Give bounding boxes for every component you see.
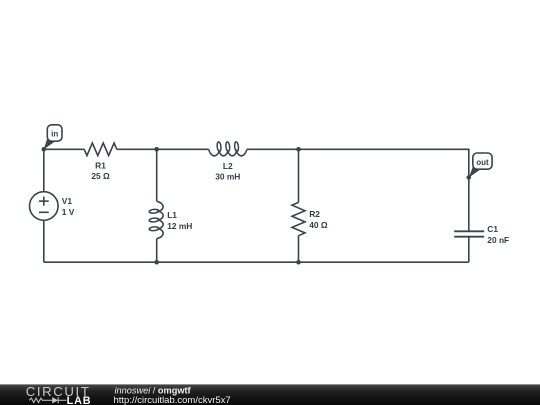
svg-text:R2: R2 xyxy=(309,209,320,219)
svg-text:innoswei / omgwtf: innoswei / omgwtf xyxy=(115,385,192,395)
wire R2 branch lower xyxy=(298,236,300,263)
svg-text:in: in xyxy=(51,129,58,138)
wire right vertical lower xyxy=(468,237,470,263)
svg-text:1 V: 1 V xyxy=(62,207,75,217)
wire L1 branch upper xyxy=(156,149,158,201)
flag out xyxy=(469,165,480,178)
svg-text:R1: R1 xyxy=(95,161,106,171)
inductor L1 xyxy=(157,201,164,239)
inductor L2 xyxy=(209,149,247,156)
voltage source V1 xyxy=(30,192,59,221)
flag in xyxy=(44,136,56,149)
wire R2 branch upper xyxy=(298,149,300,202)
wire top rail segment mid xyxy=(117,148,209,150)
node R2 bottom junction xyxy=(296,260,301,265)
resistor R1 xyxy=(84,143,117,156)
svg-text:C1: C1 xyxy=(487,224,498,234)
node out junction xyxy=(467,175,472,180)
svg-text:12 mH: 12 mH xyxy=(167,221,192,231)
node in junction xyxy=(42,147,47,152)
resistor R2 xyxy=(292,202,305,235)
wire right vertical upper xyxy=(468,149,470,232)
svg-text:20 nF: 20 nF xyxy=(487,235,509,245)
wire left vertical lower xyxy=(43,220,45,262)
node L1 top junction xyxy=(154,147,159,152)
svg-text:30 mH: 30 mH xyxy=(215,172,240,182)
svg-text:http://circuitlab.com/ckvr5x7: http://circuitlab.com/ckvr5x7 xyxy=(114,395,231,405)
node L1 bottom junction xyxy=(154,260,159,265)
svg-text:out: out xyxy=(476,158,489,167)
wire L1 branch lower xyxy=(156,239,158,262)
node R2 top junction xyxy=(296,147,301,152)
svg-text:25 Ω: 25 Ω xyxy=(91,171,110,181)
svg-text:L2: L2 xyxy=(223,161,233,171)
svg-text:40 Ω: 40 Ω xyxy=(309,220,328,230)
wire left vertical upper xyxy=(43,149,45,192)
capacitor C1 xyxy=(454,230,484,232)
svg-text:LAB: LAB xyxy=(67,395,92,405)
wire top rail segment right xyxy=(247,148,469,150)
svg-text:V1: V1 xyxy=(62,196,73,206)
wire bottom rail xyxy=(44,261,469,263)
wire top rail segment left xyxy=(44,148,84,150)
svg-text:L1: L1 xyxy=(167,210,177,220)
